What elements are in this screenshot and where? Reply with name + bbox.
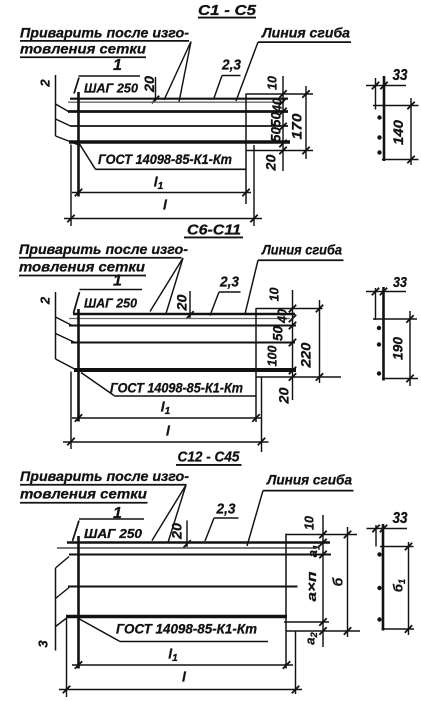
svg-text:20: 20 — [276, 387, 291, 405]
svg-text:10: 10 — [301, 515, 316, 530]
svg-text:33: 33 — [393, 510, 408, 527]
svg-text:2,3: 2,3 — [219, 275, 239, 291]
side view 33 dimension (section 3) — [375, 525, 377, 547]
outer dimension line 220 (section 2) — [319, 300, 321, 383]
svg-text:220: 220 — [298, 342, 314, 368]
fold line vertical (section 3) — [285, 534, 287, 669]
dimension l1 (section 2) — [72, 417, 261, 419]
svg-text:Линия сгиба: Линия сгиба — [261, 242, 342, 258]
svg-text:10: 10 — [266, 287, 281, 302]
chain dimension line right (section 2) — [292, 290, 294, 400]
svg-text:10: 10 — [264, 75, 279, 90]
svg-text:ШАГ 250: ШАГ 250 — [84, 82, 138, 96]
svg-text:ГОСТ 14098-85-К1-Кт: ГОСТ 14098-85-К1-Кт — [98, 152, 232, 167]
svg-text:20: 20 — [263, 154, 278, 172]
outer dimension line b (section 3) — [347, 527, 349, 637]
svg-text:20: 20 — [170, 522, 185, 540]
extension line right for l (section 1) — [253, 145, 255, 226]
svg-text:ШАГ 250: ШАГ 250 — [84, 297, 137, 311]
fold line vertical (section 2) — [255, 308, 257, 422]
side view wire dots (section 1) — [377, 115, 381, 119]
svg-text:50: 50 — [268, 112, 283, 127]
side view bottom extension (section 3) — [382, 628, 415, 630]
svg-text:С6-С11: С6-С11 — [187, 221, 241, 238]
leader lines from note to wires (section 1) — [164, 42, 191, 101]
side view wire (section 2) — [382, 287, 385, 381]
extension line left for l (section 2) — [70, 372, 72, 450]
side view dimension 190 (section 2) — [409, 311, 411, 386]
chain dimension line right (section 3) — [322, 515, 324, 647]
fold region bottom edge (section 1) — [246, 150, 313, 152]
svg-text:Линия сгиба: Линия сгиба — [266, 472, 352, 488]
svg-text:Линия сгиба: Линия сгиба — [261, 24, 350, 40]
leader from linija sgiba to fold line (section 2) — [245, 260, 258, 314]
mesh wire line 3 (section 1) — [68, 110, 288, 113]
svg-text:2: 2 — [38, 296, 53, 305]
svg-text:3: 3 — [36, 640, 51, 648]
dimension l1 (section 3) — [72, 664, 293, 666]
extension line left for l (section 1) — [70, 145, 72, 227]
svg-text:190: 190 — [390, 337, 405, 360]
mesh wire line 4 (section 3) — [68, 586, 298, 588]
flap fold diagonals (section 2) — [56, 317, 74, 326]
dimension l (section 1) — [64, 218, 262, 220]
flag GOST 14098-85-K1-Kt (section 3) — [79, 619, 121, 642]
mesh bottom edge (section 1) — [69, 140, 290, 144]
flag GOST 14098-85-K1-Kt (section 2) — [81, 373, 114, 396]
mesh wire line 3 (section 2) — [69, 325, 296, 327]
svg-text:140: 140 — [391, 119, 406, 145]
fold region top edge (section 3) — [286, 534, 357, 536]
svg-text:2,3: 2,3 — [216, 502, 236, 518]
dimension l1 (section 1) — [72, 192, 251, 194]
leader lines from note to wires (section 2) — [150, 258, 183, 312]
svg-text:20: 20 — [175, 294, 190, 312]
left extension line (section 2) — [55, 292, 57, 359]
side view 33 dimension (section 2) — [375, 288, 377, 320]
side view top extension (section 3) — [380, 546, 414, 548]
flag SHAG 250 (section 2) — [80, 289, 143, 291]
dimension l (section 3) — [59, 689, 302, 691]
svg-text:ШАГ 250: ШАГ 250 — [84, 527, 142, 541]
mesh wire line 1 (section 2) — [73, 313, 295, 315]
fold region top edge (section 2) — [256, 308, 323, 310]
cross wire vertical (section 2) — [77, 309, 80, 422]
mesh wire line 1 (section 3) — [67, 541, 330, 543]
side view top extension (section 1) — [373, 105, 419, 107]
side view top extension (section 2) — [373, 318, 417, 320]
svg-text:товления сетки: товления сетки — [20, 486, 147, 502]
side view bottom extension (section 1) — [382, 159, 419, 161]
flag SHAG 250 (section 1) — [79, 75, 141, 77]
svg-text:2,3: 2,3 — [221, 58, 241, 74]
side view dimension 140 (section 1) — [410, 98, 412, 165]
side view wire (section 3) — [382, 524, 385, 631]
svg-text:товления сетки: товления сетки — [19, 258, 145, 274]
svg-text:1: 1 — [113, 57, 122, 74]
mesh wire line 2 gray (section 2) — [69, 318, 290, 320]
svg-text:С12 - С45: С12 - С45 — [178, 448, 241, 465]
mesh bottom edge (section 2) — [74, 368, 296, 372]
svg-text:Приварить после изго-: Приварить после изго- — [20, 24, 189, 40]
left flap edge (section 3) — [55, 568, 57, 651]
mesh wire line 4 (section 2) — [71, 342, 295, 344]
svg-text:товления сетки: товления сетки — [20, 41, 146, 57]
svg-text:40: 40 — [269, 97, 284, 113]
side view wire dots (section 3) — [377, 552, 381, 556]
fold region bottom edge (section 2) — [256, 376, 341, 378]
flap fold diagonals (section 1) — [56, 104, 69, 112]
svg-text:1: 1 — [113, 273, 122, 290]
side view dimension b1 (section 3) — [408, 542, 410, 635]
svg-text:С1 - С5: С1 - С5 — [198, 2, 257, 19]
flag SHAG 250 (section 3) — [79, 518, 144, 520]
svg-text:50: 50 — [268, 127, 283, 142]
side view bottom extension (section 2) — [382, 378, 418, 380]
svg-text:170: 170 — [289, 113, 305, 139]
flap fold diagonals (section 3) — [56, 557, 70, 569]
side view wire dots (section 2) — [377, 326, 381, 330]
leader lines from note to wires (section 3) — [152, 485, 186, 541]
cross wire vertical (section 1) — [77, 92, 80, 197]
svg-text:ГОСТ 14098-85-К1-Кт: ГОСТ 14098-85-К1-Кт — [110, 381, 243, 396]
svg-text:Приварить после изго-: Приварить после изго- — [19, 241, 188, 257]
svg-text:33: 33 — [393, 67, 408, 84]
cross wire vertical (section 3) — [77, 536, 80, 669]
fold line vertical (section 1) — [245, 94, 247, 205]
side view wire (section 1) — [383, 76, 386, 161]
mesh wire line 2 gray (section 1) — [68, 101, 284, 103]
svg-text:а×п: а×п — [304, 571, 319, 601]
left extension line (section 1) — [55, 75, 57, 136]
dimension l (section 2) — [63, 441, 269, 443]
fold region top edge (section 1) — [246, 93, 313, 95]
mesh wire line 2 (section 3) — [57, 547, 317, 549]
svg-text:50: 50 — [270, 326, 285, 341]
side view 33 dimension (section 1) — [375, 78, 377, 110]
flag GOST 14098-85-K1-Kt (section 1) — [80, 144, 96, 169]
chain dimension line right (section 1) — [282, 76, 284, 171]
mesh wire line 4 (section 1) — [71, 125, 288, 127]
svg-text:40: 40 — [274, 308, 289, 324]
extension line right for l (section 2) — [261, 378, 263, 453]
mesh bottom edge (section 3) — [66, 615, 287, 619]
svg-text:Приварить после изго-: Приварить после изго- — [20, 468, 189, 484]
mesh wire line 1 (section 1) — [70, 98, 288, 100]
svg-text:33: 33 — [393, 275, 407, 291]
svg-text:ГОСТ 14098-85-К1-Кт: ГОСТ 14098-85-К1-Кт — [116, 622, 257, 637]
svg-text:100: 100 — [264, 345, 279, 367]
svg-text:2: 2 — [38, 79, 53, 88]
fold region bottom edge (section 3) — [286, 630, 360, 632]
mesh wire line 3 (section 3) — [69, 554, 331, 556]
svg-text:б: б — [330, 577, 346, 586]
leader from linija sgiba to fold line (section 3) — [247, 491, 263, 546]
leader from linija sgiba to fold line (section 1) — [236, 42, 258, 101]
extension line left for l (section 3) — [66, 618, 68, 697]
step line a-x-n end (section 3) — [284, 621, 329, 623]
step vertical right end (section 3) — [295, 632, 297, 695]
svg-text:20: 20 — [142, 75, 157, 93]
outer dimension line 170 (section 1) — [305, 86, 307, 159]
